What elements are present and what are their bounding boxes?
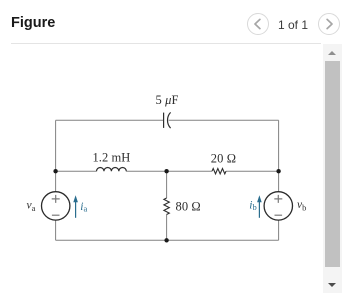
- resistor 80 ohm zigzag: [164, 198, 169, 215]
- node B junction dot (center middle): [164, 169, 168, 173]
- svg-text:20 Ω: 20 Ω: [211, 151, 236, 165]
- pagination next button: [318, 13, 340, 35]
- wire left vertical upper: [55, 120, 57, 192]
- pagination prev button: [247, 13, 269, 35]
- svg-text:va: va: [27, 200, 36, 214]
- svg-text:ia: ia: [80, 201, 87, 214]
- wire middle-left (node A to inductor): [56, 170, 97, 172]
- svg-text:1.2 mH: 1.2 mH: [93, 151, 131, 165]
- wire right vertical upper: [278, 120, 280, 192]
- wire bottom: [56, 239, 279, 241]
- scrollbar thumb: [325, 61, 340, 267]
- node A junction dot (left middle): [53, 169, 57, 173]
- header separator line: [11, 43, 321, 44]
- svg-text:5 μF: 5 μF: [156, 93, 179, 107]
- scrollbar down arrow: [328, 283, 336, 287]
- inductor 1.2mH coils: [97, 167, 127, 171]
- pagination label "1 of 1": [278, 18, 308, 32]
- wire left vertical lower: [55, 220, 57, 240]
- source vb minus sign: [275, 214, 283, 216]
- svg-text:ib: ib: [249, 200, 256, 213]
- wire middle-right (resistor 20 to node B): [226, 170, 279, 172]
- source vb circle: [264, 192, 292, 220]
- source va minus sign: [52, 214, 60, 216]
- wire middle-center (inductor to resistor 20): [126, 170, 212, 172]
- wire center branch lower: [166, 215, 168, 241]
- svg-text:80 Ω: 80 Ω: [176, 199, 201, 213]
- current arrow ib: [258, 202, 260, 218]
- wire right vertical lower: [278, 220, 280, 240]
- node D junction dot (bottom center): [164, 238, 168, 242]
- header title "Figure": [11, 15, 55, 31]
- wire center branch upper: [166, 171, 168, 198]
- current arrow ia: [75, 202, 77, 218]
- resistor 20 ohm zigzag: [212, 169, 226, 174]
- wire top-right (from capacitor): [169, 119, 279, 121]
- wire top-left (to capacitor): [56, 119, 163, 121]
- capacitor 5uF curved plate: [168, 112, 171, 128]
- scrollbar up arrow: [328, 51, 336, 55]
- node C junction dot (right middle): [276, 169, 280, 173]
- source vb plus sign: [274, 195, 282, 203]
- capacitor 5uF flat plate: [163, 113, 165, 128]
- svg-text:vb: vb: [297, 199, 306, 213]
- source va plus sign: [52, 195, 60, 203]
- scrollbar track: [323, 44, 342, 293]
- source va circle: [42, 192, 70, 220]
